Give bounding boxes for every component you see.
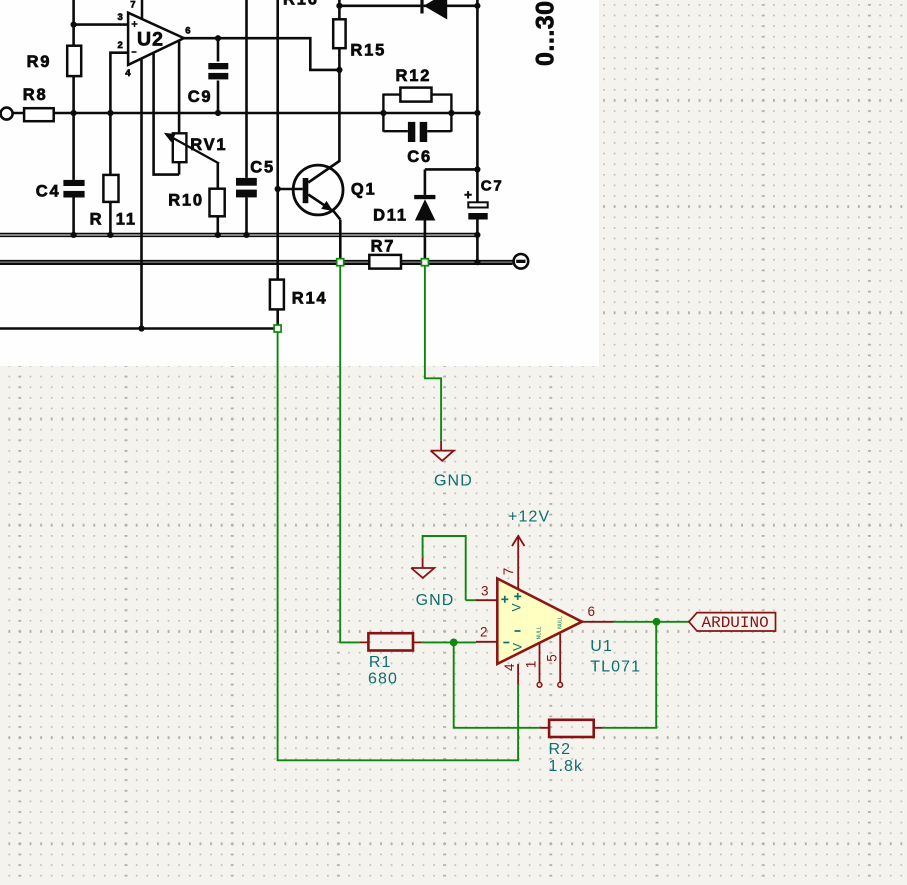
svg-text:NULL: NULL (537, 626, 543, 639)
svg-text:R2: R2 (549, 741, 572, 758)
svg-text:1.8k: 1.8k (549, 758, 584, 775)
svg-text:4: 4 (125, 68, 131, 79)
svg-text:6: 6 (588, 604, 596, 619)
svg-text:C7: C7 (481, 178, 504, 195)
svg-text:7: 7 (501, 568, 516, 576)
svg-text:C5: C5 (250, 159, 275, 177)
svg-text:R8: R8 (23, 86, 48, 104)
svg-text:R10: R10 (168, 191, 204, 209)
svg-text:4: 4 (502, 663, 517, 671)
svg-text:1: 1 (524, 661, 539, 669)
svg-text:C6: C6 (407, 148, 432, 166)
svg-text:V: V (511, 643, 525, 651)
svg-text:3: 3 (481, 583, 489, 598)
svg-text:R: R (90, 211, 104, 229)
svg-text:V: V (510, 603, 524, 611)
svg-text:R9: R9 (27, 53, 52, 71)
svg-text:TL071: TL071 (590, 659, 641, 676)
svg-text:C9: C9 (188, 88, 213, 106)
svg-text:2: 2 (480, 625, 488, 640)
svg-text:11: 11 (116, 211, 137, 229)
svg-text:GND: GND (416, 592, 455, 609)
svg-text:0...30: 0...30 (531, 0, 559, 66)
svg-text:U2: U2 (137, 29, 164, 51)
svg-text:R16: R16 (283, 0, 319, 9)
svg-text:R14: R14 (292, 290, 328, 308)
svg-text:680: 680 (368, 671, 398, 688)
svg-text:3: 3 (118, 12, 123, 23)
svg-text:6: 6 (185, 25, 190, 36)
svg-text:R15: R15 (350, 42, 386, 60)
svg-text:U1: U1 (590, 638, 613, 655)
svg-text:GND: GND (434, 473, 473, 490)
svg-text:+12V: +12V (508, 509, 550, 526)
svg-text:C4: C4 (36, 182, 61, 200)
svg-text:RV1: RV1 (190, 136, 227, 154)
svg-text:ARDUINO: ARDUINO (702, 614, 769, 632)
svg-text:Q1: Q1 (351, 181, 377, 199)
svg-text:R1: R1 (369, 654, 392, 671)
svg-text:5: 5 (545, 654, 560, 662)
svg-text:7: 7 (130, 0, 135, 11)
svg-text:NULL: NULL (557, 616, 563, 629)
svg-text:R12: R12 (396, 67, 432, 85)
svg-text:2: 2 (118, 40, 123, 51)
svg-text:R7: R7 (371, 238, 396, 256)
svg-text:D11: D11 (373, 206, 408, 224)
